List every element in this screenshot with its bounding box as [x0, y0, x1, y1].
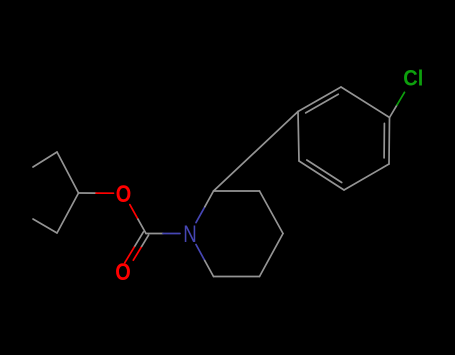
ring bond C3-C4 — [260, 191, 284, 234]
ring bond N-C2 — [196, 207, 205, 223]
phenyl edge C5'-C6' — [299, 161, 344, 190]
bond C-Cl — [390, 105, 398, 118]
phenyl inner double line C5'-C6' — [307, 160, 342, 183]
svg-text:O: O — [115, 259, 131, 286]
ring bond C2-C3 — [214, 190, 260, 192]
bond C-O ester — [79, 192, 97, 194]
svg-text:O: O — [116, 181, 132, 208]
phenyl edge C3'-C4' — [388, 118, 391, 165]
svg-text:N: N — [183, 221, 197, 248]
ring bond C5-C6 — [214, 276, 260, 278]
phenyl edge C6'-C1' — [298, 112, 299, 162]
bond C2-phenyl ipso — [214, 112, 299, 192]
ring bond N-C6 — [196, 245, 205, 261]
bond CH3-CH2 (upper left methyl) — [33, 152, 57, 167]
bond C-N amide — [146, 233, 163, 235]
bond CH2-C (lower) — [57, 193, 79, 233]
phenyl inner double line C1'-C2' — [306, 94, 339, 113]
svg-text:Cl: Cl — [403, 66, 423, 91]
bond CH2-C (upper) — [57, 152, 79, 193]
double bond C=O — [134, 232, 143, 247]
phenyl edge C1'-C2' — [298, 87, 341, 112]
phenyl inner double line C3'-C4' — [383, 123, 385, 157]
ring bond C4-C5 — [260, 234, 284, 277]
bond O-C carbonyl — [130, 205, 138, 220]
phenyl edge C2'-C3' — [341, 87, 390, 118]
phenyl edge C4'-C5' — [344, 164, 389, 190]
bond CH3-CH2 (lower left methyl) — [33, 219, 57, 233]
